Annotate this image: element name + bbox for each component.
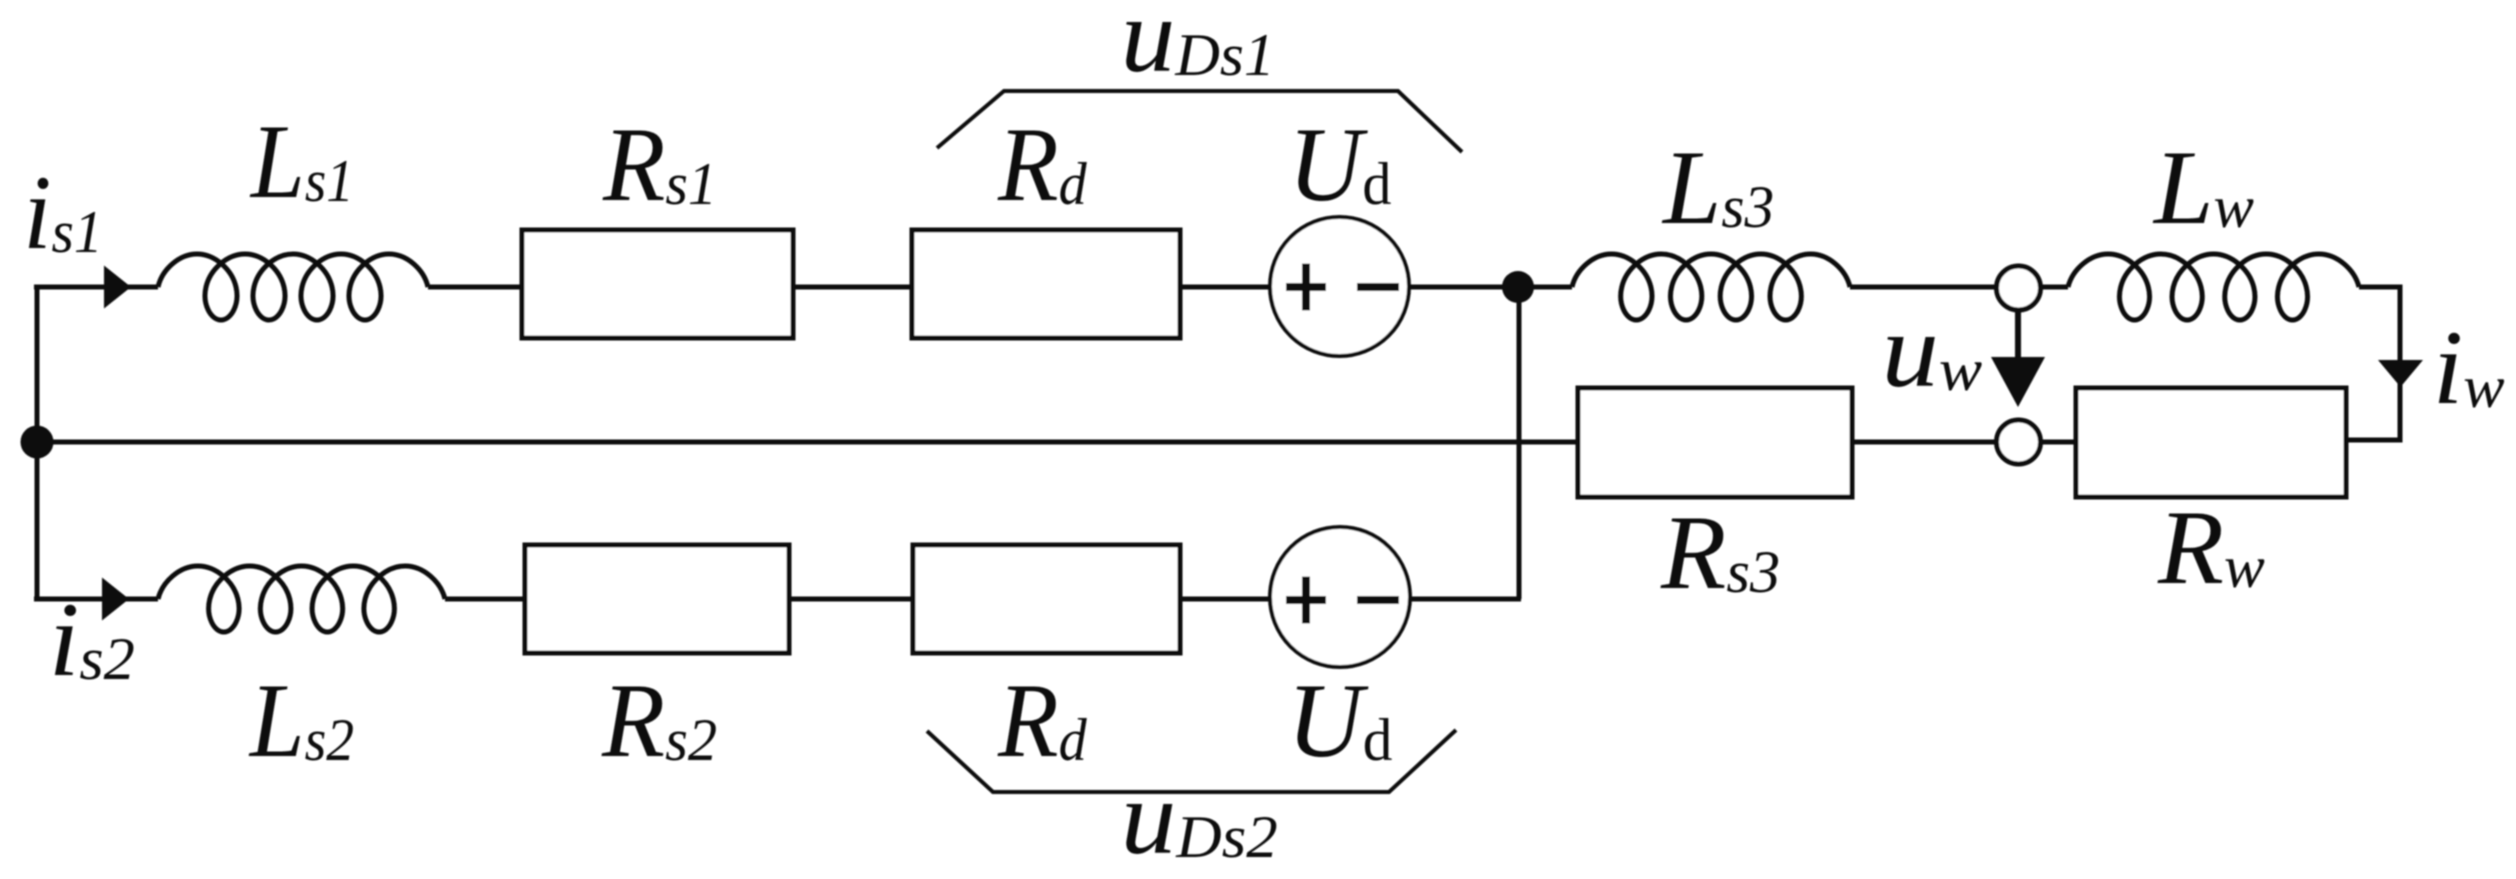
arrow: voltage uw between terminals	[2015, 312, 2021, 366]
plus sign of Ud top	[1286, 264, 1326, 311]
inductor Ls1	[158, 254, 428, 320]
label is2	[49, 582, 135, 699]
minus sign of Ud bottom	[1357, 596, 1399, 604]
wire: upper terminal to Lw	[2041, 285, 2068, 290]
wire: Rd to Ud source (top)	[1180, 285, 1272, 290]
resistor Rd (bottom)	[913, 545, 1180, 653]
wire: top branch from left corner to coil Ls1	[34, 285, 158, 290]
wire: Rs2 to Rd(bottom)	[789, 597, 913, 602]
arrow: current direction is1 on top branch	[104, 266, 131, 309]
label uw	[1882, 292, 1983, 409]
voltage source Ud (top)	[1270, 217, 1409, 356]
terminal: lower port circle	[1997, 420, 2041, 464]
voltage source Ud (bottom)	[1270, 527, 1410, 667]
wire: Ls3 to upper terminal circle	[1850, 285, 1996, 290]
resistor Rs3	[1578, 388, 1852, 497]
minus sign of Ud top	[1357, 283, 1399, 291]
bracket: uDs1 overbrace (top)	[937, 91, 1462, 152]
label Rs2	[601, 662, 717, 780]
wire: Ls1 to Rs1	[428, 285, 522, 290]
label uDs1	[1121, 0, 1275, 95]
resistor Rs1	[522, 230, 793, 338]
label Lw	[2152, 129, 2254, 246]
resistor Rw	[2076, 388, 2346, 497]
resistor Rd (top)	[912, 230, 1180, 338]
plus sign of Ud bottom	[1286, 577, 1326, 624]
wire: Rs1 to Rd(top)	[793, 285, 912, 290]
label Ls3	[1661, 129, 1774, 247]
wire: Ls2 to Rs2	[445, 597, 525, 602]
inductor Ls2	[158, 566, 445, 632]
wire: vertical tie from top node down to bottom branch	[1517, 287, 1522, 599]
wire: Rs3 to lower terminal circle	[1852, 440, 1996, 445]
label is1	[23, 155, 102, 271]
wire: bottom branch from left corner to coil Ls2	[34, 597, 158, 602]
inductor Ls3	[1572, 254, 1850, 320]
wire: Ud top to node and Ls3	[1408, 285, 1572, 290]
bracket: uDs2 underbrace (bottom)	[927, 730, 1456, 792]
wire: middle horizontal bus	[34, 440, 1578, 445]
label Ud bottom	[1287, 661, 1393, 779]
label Rw	[2157, 490, 2265, 607]
label Ud top	[1288, 106, 1391, 224]
node: left bus junction	[21, 426, 54, 459]
label Rs3	[1660, 494, 1780, 611]
inductor Lw	[2068, 254, 2359, 320]
label iw	[2433, 310, 2505, 427]
resistor Rs2	[525, 545, 789, 653]
wire: lower terminal to Rw	[2041, 440, 2076, 445]
label Ls1	[249, 102, 354, 220]
node: junction of top branch and vertical tie	[1502, 271, 1534, 303]
wire: Lw to top-right corner and down to Rw	[2346, 287, 2400, 440]
label Ls2	[248, 663, 354, 780]
arrow: current direction is2 on bottom branch	[102, 578, 129, 621]
wire: left vertical bus	[35, 287, 40, 599]
label uDs2	[1121, 759, 1278, 876]
label Rs1	[602, 105, 717, 223]
label Rd bottom	[997, 663, 1088, 780]
label Rd top	[997, 107, 1088, 224]
arrow: current direction iw pointing down	[2378, 360, 2423, 387]
wire: Ud bottom to vertical tie	[1408, 597, 1521, 602]
terminal: upper port circle	[1997, 266, 2041, 310]
wire: Rd to Ud source (bottom)	[1180, 597, 1272, 602]
